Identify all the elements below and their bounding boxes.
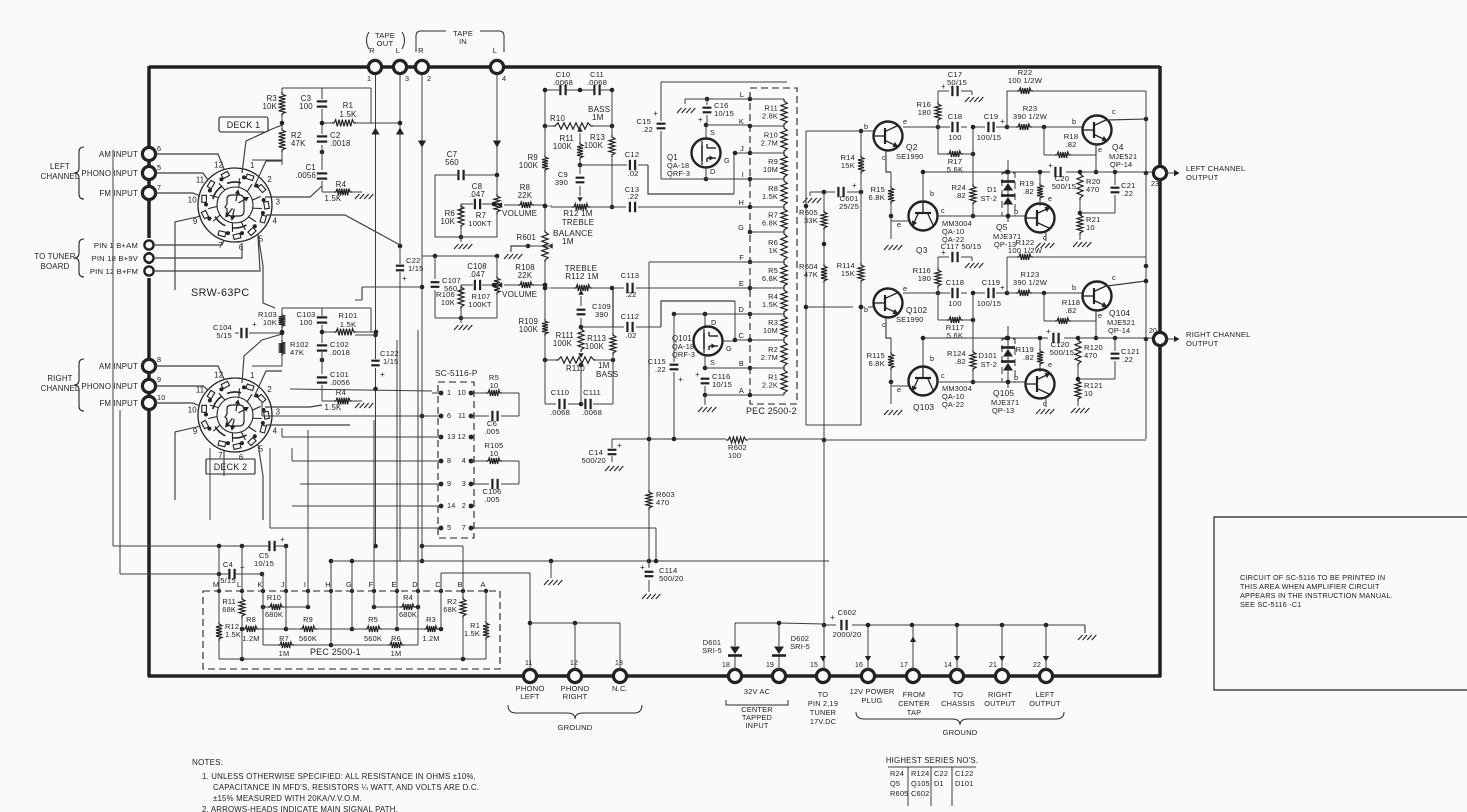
svg-text:+: + [402,273,407,283]
resistor R122 100 1/2W [1007,238,1146,293]
svg-text:L: L [396,46,400,55]
svg-text:10/15: 10/15 [714,109,734,118]
svg-text:.82: .82 [955,191,966,200]
svg-text:1: 1 [250,371,255,380]
ground C14 [605,466,623,471]
svg-text:560: 560 [445,158,459,167]
svg-text:10: 10 [188,406,198,415]
svg-text:PIN 12 B+FM: PIN 12 B+FM [90,267,138,276]
svg-text:470: 470 [1086,185,1099,194]
resistor R11 100K [553,134,583,167]
svg-text:100: 100 [948,299,961,308]
svg-text:13: 13 [615,660,623,667]
svg-text:22: 22 [1033,662,1041,669]
ground deck1 R4 [355,194,373,199]
resistor R109 100K [518,317,548,336]
wire amp bottom main [903,291,1083,296]
terminal 18 [722,662,742,683]
label 32V AC input [726,687,788,730]
label notes [192,758,479,812]
svg-text:12V POWER: 12V POWER [850,687,895,696]
wire Q104 collector [1107,279,1148,286]
svg-text:R4: R4 [336,180,347,189]
svg-text:22K: 22K [518,191,533,200]
resistor PEC2 R7 6.8K [762,207,787,232]
svg-text:6.8K: 6.8K [762,274,778,283]
wire tape in R drop [418,74,426,287]
svg-text:19: 19 [766,662,774,669]
wire tuner pin12 [155,236,260,271]
svg-text:6.8K: 6.8K [762,219,778,228]
wire tape out R drop [371,74,379,548]
potentiometer R601 1M balance [504,230,553,262]
svg-text:R: R [418,46,424,55]
capacitor C103 100 [297,310,329,327]
wire tape out L drop [396,74,404,248]
svg-text:2. ARROWS-HEADS INDICATE MAIN: 2. ARROWS-HEADS INDICATE MAIN SIGNAL PAT… [202,805,398,812]
terminal pin1 B+AM [94,240,154,250]
connector pins SC-5116-P [432,388,473,532]
rotary switch deck 2 [188,371,281,462]
wire treble lower row [543,286,552,291]
svg-text:TREBLE: TREBLE [562,218,595,227]
capacitor C15 .22 [636,108,666,134]
capacitor C4 5/15 [219,560,262,585]
resistor R123 390 1/2W [1013,270,1048,296]
svg-text:470: 470 [1084,351,1097,360]
svg-text:1M: 1M [279,649,290,658]
svg-text:J: J [740,144,744,153]
svg-text:C111: C111 [583,388,601,397]
svg-text:QP-14: QP-14 [1108,326,1130,335]
svg-text:LEFT: LEFT [520,692,540,701]
capacitor C1 .0056 [295,163,328,180]
potentiometer R7 100KT volume [468,194,502,228]
wire Q2 emitter up [898,121,938,127]
svg-text:10M: 10M [763,165,778,174]
svg-text:23: 23 [1151,181,1159,188]
resistor R114 15K [837,261,864,283]
resistor R4 680K pec1 [372,593,421,619]
capacitor C104 5/15 [213,320,257,340]
wire deck1 top loop [175,125,400,308]
label VOLUME right [502,290,538,299]
resistor R120 470 [1075,338,1103,381]
wire connector feeds [242,402,438,540]
svg-text:AM INPUT: AM INPUT [99,362,138,371]
svg-text:c: c [1112,273,1116,282]
resistor R24 .82 [951,154,976,218]
svg-text:TUNER: TUNER [810,708,836,717]
svg-text:180: 180 [918,108,931,117]
wire C118 junction [971,291,976,320]
resistor R20 470 [1077,172,1101,215]
svg-text:b: b [930,189,934,198]
resistor R108 22K [504,263,547,288]
svg-text:+: + [852,181,857,190]
svg-text:R124: R124 [911,769,929,778]
svg-text:.0056: .0056 [330,378,350,387]
svg-text:D101: D101 [979,351,997,360]
ground Q3 [884,245,902,250]
svg-text:1.5K: 1.5K [762,192,778,201]
resistor R21 10 [1077,213,1101,240]
wire Q3 base up [921,170,1010,202]
svg-text:R8: R8 [246,615,256,624]
resistor R2 47K [279,128,307,152]
svg-text:C19: C19 [984,112,999,121]
svg-text:6: 6 [447,411,451,420]
svg-text:R605: R605 [890,789,908,798]
terminal 6 AM input left [99,144,161,161]
resistor R6 1M pec1 [331,629,418,658]
svg-text:R6: R6 [391,634,401,643]
resistor R113 100K [585,288,616,355]
svg-text:.0068: .0068 [587,78,607,87]
svg-text:M: M [213,580,219,589]
resistor R101 1.5K [334,311,358,335]
svg-text:500/15: 500/15 [1050,348,1074,357]
svg-text:SE1990: SE1990 [896,152,923,161]
wire deck2 cluster [235,308,371,401]
svg-text:.22: .22 [642,125,653,134]
svg-text:100K: 100K [553,142,573,151]
svg-text:b: b [864,305,868,314]
svg-text:9: 9 [447,479,451,488]
svg-text:Q4: Q4 [1112,142,1124,152]
PEC 2500-2 node stubs [738,90,784,397]
svg-text:L: L [493,46,497,55]
wire C112 row [581,301,735,340]
svg-text:K: K [257,580,262,589]
wire terminal 17 drop [910,625,916,670]
label SRW-63PC [191,287,250,299]
svg-text:.0018: .0018 [330,348,350,357]
terminal 4 tape in L [490,60,506,83]
ground Q5 [1036,243,1054,248]
resistor R3 10K [262,92,285,116]
svg-text:+: + [617,440,622,450]
svg-text:10: 10 [1086,223,1095,232]
ground volume R [454,325,472,330]
svg-text:GROUND: GROUND [942,728,977,737]
wire tuner pin1 [155,240,224,245]
wire bus x376 [290,333,432,392]
capacitor C16 10/15 [698,101,734,124]
svg-text:b: b [1072,117,1076,126]
svg-text:C18: C18 [948,112,963,121]
svg-text:9: 9 [157,375,161,384]
svg-text:100K: 100K [584,141,604,150]
svg-text:12: 12 [458,432,466,441]
svg-text:RIGHT: RIGHT [563,692,588,701]
wire phono input to deck1 [155,173,208,180]
svg-text:R1: R1 [343,101,353,110]
resistor R604 47K [799,262,827,283]
ground R121 [1071,408,1089,413]
svg-text:b: b [864,122,868,131]
capacitor C116 10/15 [695,370,751,405]
label tape out [367,31,405,55]
resistor R103 10K [258,310,285,328]
svg-text:Q102: Q102 [906,305,927,315]
svg-text:C: C [738,331,744,340]
svg-text:QA-22: QA-22 [942,400,964,409]
label to chassis [941,690,975,708]
svg-text:D: D [738,305,744,314]
svg-text:SRI-5: SRI-5 [702,646,722,655]
svg-text:F: F [369,580,374,589]
svg-text:R5: R5 [368,615,378,624]
svg-text:1.5K: 1.5K [464,629,480,638]
svg-text:.0068: .0068 [550,408,570,417]
terminal 12 phono right [561,660,590,701]
svg-text:100: 100 [299,318,312,327]
wire Q102 base [859,305,873,310]
svg-text:100/15: 100/15 [977,133,1001,142]
svg-text:11: 11 [525,660,533,667]
resistor R1 1.5K [332,101,357,126]
svg-text:H: H [325,580,331,589]
svg-text:BOARD: BOARD [41,262,70,271]
svg-text:5: 5 [447,523,451,532]
svg-text:AM INPUT: AM INPUT [99,150,138,159]
PEC 2500-1 col nodes [213,580,488,593]
resistor PEC2 R9 10M [763,153,787,179]
wire terminal 21 drop [999,625,1005,670]
label 12V power plug [850,687,895,705]
svg-text:5/15: 5/15 [216,331,232,340]
svg-text:3: 3 [276,407,281,416]
wire x861 column [806,129,863,425]
svg-text:47K: 47K [291,139,306,148]
wire B col up [422,545,463,547]
svg-text:TO TUNER: TO TUNER [34,252,75,261]
svg-text:1M: 1M [592,113,604,122]
svg-text:S: S [710,128,715,137]
svg-text:18: 18 [722,662,730,669]
ground Q103 [884,410,902,415]
label from center tap [898,690,930,717]
svg-text:Q103: Q103 [913,402,934,412]
wire x806 column [751,131,868,425]
capacitor C102 .0018 [316,340,350,360]
svg-text:6: 6 [239,453,244,462]
svg-text:4: 4 [273,216,278,225]
potentiometer R12 treble 1M [545,204,612,227]
wire deck1 cluster [252,88,371,192]
svg-text:6: 6 [239,243,244,252]
svg-text:N.C.: N.C. [612,684,628,693]
svg-text:560K: 560K [299,634,317,643]
svg-text:68K: 68K [443,605,457,614]
svg-text:b: b [1014,373,1018,382]
capacitor C602 2000/20 [824,608,912,639]
svg-text:PIN 1 B+AM: PIN 1 B+AM [94,241,138,250]
svg-text:14: 14 [447,501,455,510]
resistor R105 10 [471,441,519,484]
ground power rail [1078,635,1096,640]
capacitor C18 100 [948,112,963,142]
wire PEC1 verticals [219,300,486,591]
svg-text:2.8K: 2.8K [762,112,778,121]
svg-text:10K: 10K [441,298,455,307]
svg-text:1: 1 [447,388,451,397]
svg-text:e: e [903,284,907,293]
svg-text:+: + [695,370,700,379]
svg-text:G: G [726,344,732,353]
resistor R16 180 [916,91,941,127]
wire bass lower box [545,360,613,406]
svg-text:100 1/2W: 100 1/2W [1008,76,1043,85]
svg-text:D: D [412,580,418,589]
svg-text:SRI-5: SRI-5 [790,642,810,651]
svg-text:100K: 100K [519,325,539,334]
svg-text:R4: R4 [403,593,413,602]
svg-text:68K: 68K [222,605,236,614]
wire Q4 collector [1107,91,1148,121]
svg-text:470: 470 [656,498,669,507]
wire Q105 collector gnd [1045,398,1047,407]
wire tuner pin18 [155,243,242,258]
svg-text:LEFT: LEFT [1036,690,1055,699]
svg-text:C22: C22 [934,769,948,778]
resistor R12 1.5K pec1 [216,622,241,641]
svg-text:5.6K: 5.6K [947,165,963,174]
svg-text:2.7M: 2.7M [761,353,778,362]
wire pin7 run [471,528,656,561]
svg-text:SEE SC-5116 -C1: SEE SC-5116 -C1 [1240,600,1301,609]
wire C14 row [612,437,676,462]
svg-text:Q104: Q104 [1109,308,1130,318]
svg-text:LEFT: LEFT [50,162,70,171]
capacitor C101 .0056 [316,370,350,387]
svg-text:RIGHT: RIGHT [988,690,1012,699]
resistor R8 22K [504,183,547,208]
svg-text:VOLUME: VOLUME [502,290,538,299]
svg-text:c: c [941,206,945,215]
wire pec1 bottom [219,591,486,661]
wire deck2 drops [210,448,230,520]
label right channel [41,359,84,411]
svg-text:1: 1 [367,74,371,83]
wire terminal 14 drop [954,625,960,670]
svg-text:C118: C118 [946,278,964,287]
label balance [553,228,593,246]
wire main border frame [148,66,1161,677]
capacitor C112 .02 [621,312,639,340]
svg-text:FM INPUT: FM INPUT [99,399,138,408]
capacitor C110 .0068 [550,388,570,417]
svg-text:RIGHT CHANNEL: RIGHT CHANNEL [1186,330,1251,339]
svg-text:+: + [830,612,835,622]
svg-text:b: b [1014,207,1018,216]
svg-text:20: 20 [1149,328,1157,335]
svg-text:10: 10 [490,449,499,458]
capacitor C17 50/15 [938,70,972,97]
svg-text:L: L [237,580,241,589]
svg-text:E: E [391,580,396,589]
svg-text:OUT: OUT [377,39,394,48]
svg-text:.02: .02 [627,169,638,178]
resistor R111 100K [545,288,584,360]
svg-text:+: + [941,248,946,257]
capacitor C115 .22 [648,314,684,439]
svg-text:G: G [346,580,352,589]
svg-text:.82: .82 [1023,353,1034,362]
svg-text:10: 10 [1084,389,1093,398]
wire output line y339 [1007,336,1153,341]
svg-text:L: L [740,90,744,99]
svg-text:+: + [1046,327,1051,336]
wire volume box L [435,173,499,242]
svg-text:390: 390 [555,178,568,187]
svg-text:A: A [480,580,485,589]
svg-text:CHANNEL: CHANNEL [41,384,80,393]
svg-text:.0068: .0068 [582,408,602,417]
svg-text:ST-2: ST-2 [981,194,997,203]
resistor R9 560K pec1 [286,615,354,643]
capacitor C5 10/15 [242,535,286,568]
terminal pin18 B+9V [92,253,154,263]
svg-text:1.5K: 1.5K [225,630,241,639]
svg-text:100KT: 100KT [468,300,492,309]
resistor PEC2 R8 1.5K [762,179,787,207]
svg-text:QRF-3: QRF-3 [667,169,690,178]
svg-text:c: c [1112,107,1116,116]
svg-text:c: c [882,320,886,329]
wire C12 row [580,153,734,194]
svg-text:17V.DC: 17V.DC [810,717,837,726]
resistor R3 1.2M pec1 [397,615,443,643]
svg-text:C110: C110 [551,388,569,397]
svg-text:10: 10 [157,393,165,402]
resistor R106 10K [436,285,464,309]
PEC 2500-1 dashed box [203,591,500,669]
label right output [984,690,1016,708]
svg-text:+: + [280,535,285,544]
label VOLUME left [502,209,538,218]
svg-text:CAPACITANCE IN MFD'S, RESISTOR: CAPACITANCE IN MFD'S, RESISTORS ¼ WATT, … [213,783,479,792]
terminal 11 phono left [516,660,545,701]
diode D1 ST-2 [981,154,1015,222]
svg-text:17: 17 [900,662,908,669]
svg-text:100/15: 100/15 [977,299,1001,308]
svg-text:B: B [457,580,462,589]
wire Q3c to Q5b [938,214,1025,219]
terminal 14 [944,662,964,683]
svg-text:CENTER: CENTER [898,699,930,708]
wire y574 long [120,572,264,577]
svg-text:100K: 100K [553,339,573,348]
svg-text:TO: TO [953,690,964,699]
box circuit of SC-5116 note [1214,517,1467,690]
svg-text:6.8K: 6.8K [869,359,885,368]
svg-text:R24: R24 [890,769,904,778]
svg-text:.005: .005 [484,495,500,504]
terminal 3 tape out L [393,60,409,83]
resistor R117 5.6K [946,317,964,340]
ground C116 [698,407,716,412]
svg-text:15K: 15K [841,269,855,278]
svg-text:IN: IN [459,37,467,46]
svg-text:CIRCUIT OF SC-5116 TO BE PRI: CIRCUIT OF SC-5116 TO BE PRINTED IN [1240,573,1385,582]
svg-text:e: e [1098,311,1102,320]
svg-text:13: 13 [447,432,455,441]
transistor Q104 MJE521 QP-14 [1072,273,1135,335]
svg-text:+: + [678,374,683,384]
svg-text:11: 11 [458,411,466,420]
